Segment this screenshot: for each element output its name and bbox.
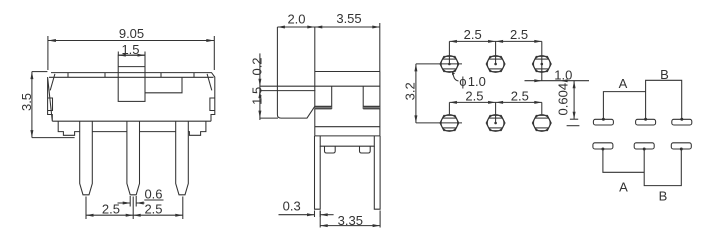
body slot left bbox=[315, 86, 332, 109]
svg-text:0.604: 0.604 bbox=[555, 83, 570, 116]
svg-text:ϕ1.0: ϕ1.0 bbox=[459, 74, 486, 89]
dimension 3.5 height bbox=[19, 72, 75, 138]
terminal pad bottom-1 bbox=[593, 143, 613, 149]
svg-text:0.2: 0.2 bbox=[250, 57, 265, 75]
right rib bbox=[210, 98, 215, 111]
svg-text:2.5: 2.5 bbox=[464, 27, 482, 42]
label diameter 1.0 with leader bbox=[452, 71, 486, 89]
pad hole bottom-left bbox=[440, 115, 459, 132]
dimension 0.6 pin tip bbox=[118, 187, 164, 207]
terminal pad top-3 bbox=[672, 119, 692, 125]
svg-text:9.05: 9.05 bbox=[119, 26, 144, 41]
dimension 2.5 2.5 pin pitch bbox=[86, 197, 183, 220]
leg left side bbox=[315, 136, 321, 209]
wire B bottom bbox=[644, 149, 681, 186]
body side bbox=[315, 72, 380, 136]
terminal pad bottom-2 bbox=[634, 143, 654, 149]
dimension 2.5 2.5 top row bbox=[449, 27, 541, 81]
svg-text:2.5: 2.5 bbox=[510, 27, 528, 42]
dimension 1.5 knob width bbox=[118, 42, 145, 57]
pin 2 front bbox=[127, 121, 140, 195]
pad hole top-left bbox=[440, 56, 459, 73]
terminal pad bottom-3 bbox=[671, 143, 691, 149]
VIEW2 side view bbox=[250, 11, 381, 228]
panel tab 1 bbox=[325, 146, 336, 153]
leg right side bbox=[374, 136, 380, 209]
terminal pad top-1 bbox=[593, 119, 613, 125]
node dot bottom-2 bbox=[643, 148, 646, 151]
dimension 3.2 row pitch bbox=[402, 64, 462, 123]
knob front bbox=[118, 55, 145, 101]
svg-text:B: B bbox=[660, 67, 669, 82]
body outline front bbox=[48, 73, 215, 122]
dimension 0.3 leg bbox=[279, 198, 334, 217]
dimension 3.35 bbox=[320, 211, 380, 229]
pin 1 front bbox=[80, 121, 93, 195]
pad hole bottom-right bbox=[532, 115, 551, 132]
node dot top-3 bbox=[680, 118, 683, 121]
dimension 0.604 bbox=[555, 81, 579, 126]
panel tab 2 bbox=[360, 146, 371, 153]
terminal pad top-2 bbox=[636, 119, 656, 125]
svg-text:A: A bbox=[619, 180, 628, 195]
node dot bottom-3 bbox=[680, 148, 683, 151]
svg-text:2.5: 2.5 bbox=[465, 88, 483, 103]
node dot top-2 bbox=[644, 118, 647, 121]
pad hole top-mid bbox=[486, 56, 505, 73]
svg-text:3.55: 3.55 bbox=[336, 11, 361, 26]
svg-text:3.2: 3.2 bbox=[402, 82, 417, 100]
svg-text:B: B bbox=[659, 189, 668, 204]
svg-text:0.3: 0.3 bbox=[283, 198, 301, 213]
knob track lines bbox=[260, 86, 380, 118]
wire B top bbox=[646, 80, 682, 119]
knob side bbox=[277, 27, 314, 136]
svg-text:3.35: 3.35 bbox=[338, 213, 363, 228]
dimension 9.05 width bbox=[48, 26, 214, 70]
dimension 0.2 and 1.5 side bbox=[250, 53, 265, 120]
bottom panel bbox=[320, 136, 374, 146]
svg-text:1.5: 1.5 bbox=[250, 87, 265, 105]
svg-text:2.5: 2.5 bbox=[511, 88, 529, 103]
dimension 2.5 2.5 bottom row bbox=[449, 88, 541, 123]
node dot top-1 bbox=[602, 118, 605, 121]
pin 3 front bbox=[176, 121, 189, 195]
ledge right of knob bbox=[145, 77, 182, 93]
dimension 1.0 offset bbox=[525, 68, 590, 83]
svg-text:0.6: 0.6 bbox=[144, 187, 162, 202]
VIEW4 schematic bbox=[593, 67, 692, 204]
wire A bottom bbox=[603, 149, 644, 172]
svg-text:1.0: 1.0 bbox=[554, 68, 572, 83]
base and feet bbox=[52, 121, 211, 135]
left rib bbox=[48, 98, 53, 111]
VIEW1 front view bbox=[19, 26, 215, 219]
node dot bottom-1 bbox=[601, 148, 604, 151]
body slot right bbox=[363, 86, 380, 109]
svg-text:2.0: 2.0 bbox=[287, 12, 305, 27]
dimension 2.0 and 3.55 bbox=[277, 11, 379, 72]
svg-text:2.5: 2.5 bbox=[144, 201, 162, 216]
svg-text:A: A bbox=[619, 76, 628, 91]
wire A top bbox=[603, 92, 645, 120]
VIEW3 pcb layout bbox=[402, 27, 589, 132]
pad hole top-right bbox=[532, 56, 551, 73]
svg-text:2.5: 2.5 bbox=[102, 201, 120, 216]
svg-text:3.5: 3.5 bbox=[19, 93, 34, 111]
pad hole bottom-mid bbox=[486, 115, 505, 132]
